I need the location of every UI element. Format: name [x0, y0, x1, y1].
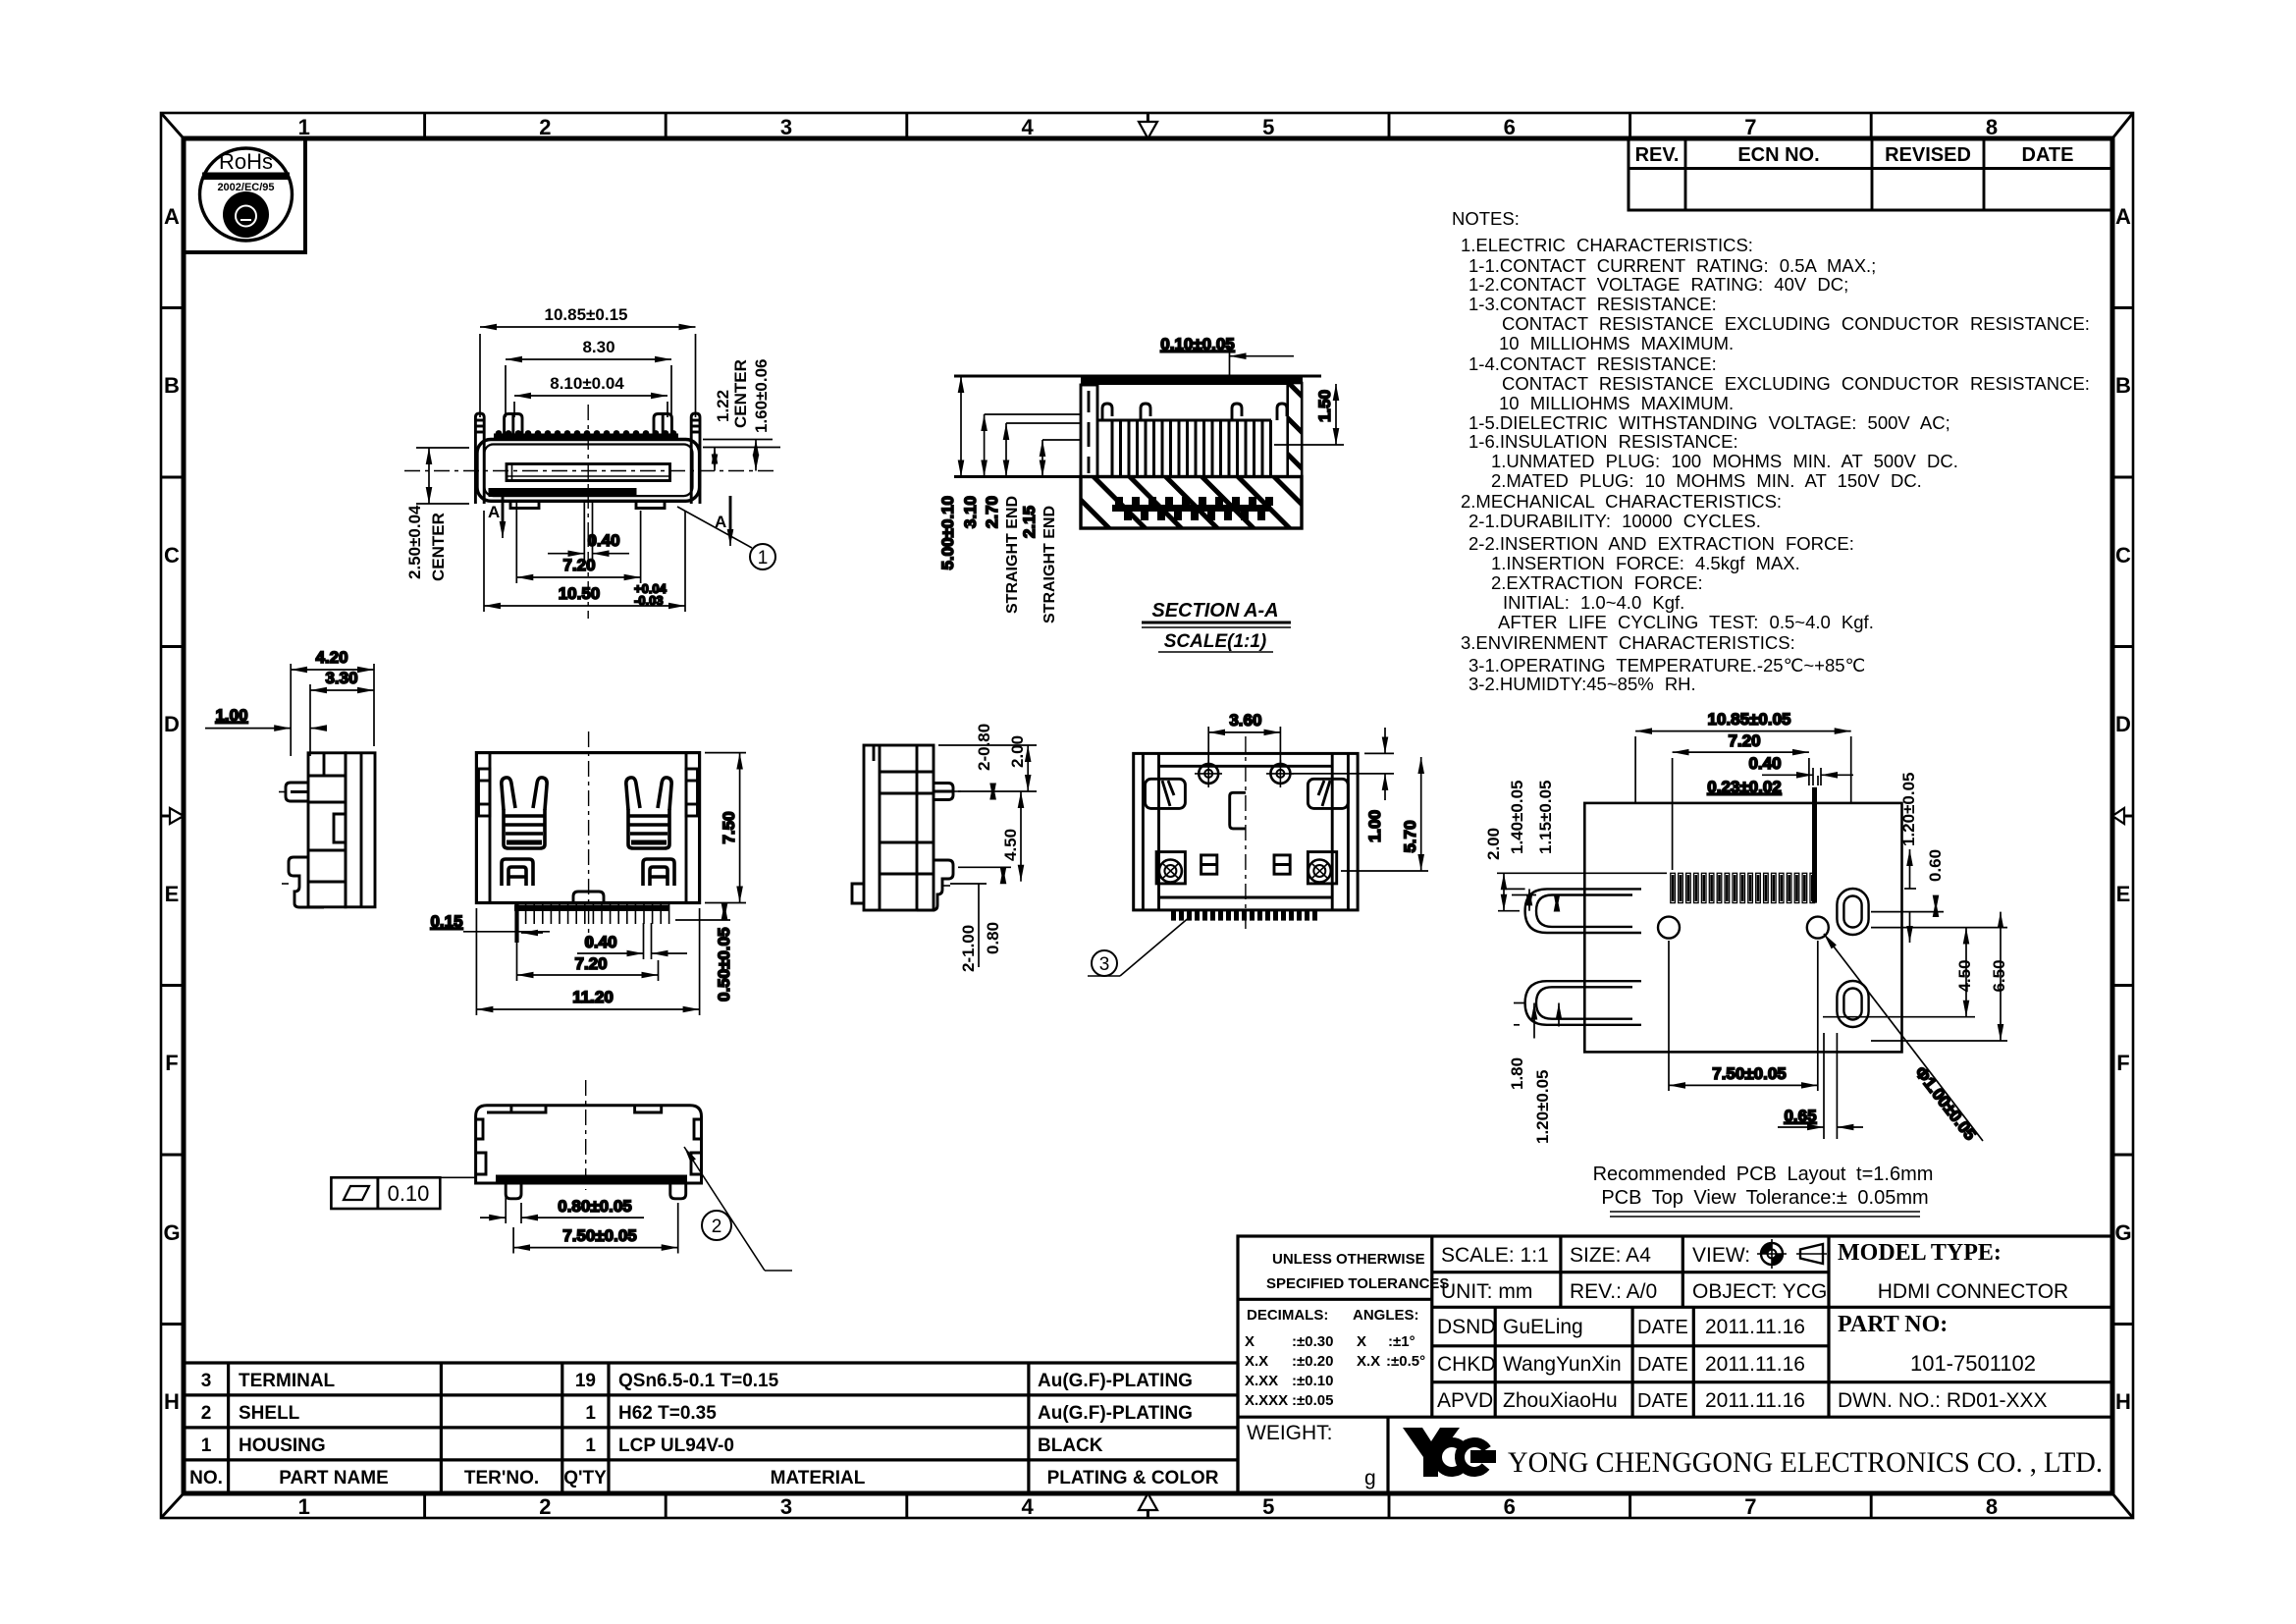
svg-text:REV.: REV.: [1635, 144, 1680, 166]
svg-text:STRAIGHT END: STRAIGHT END: [1041, 506, 1058, 623]
v7 hole left: [1658, 917, 1680, 939]
svg-text:2011.11.16: 2011.11.16: [1705, 1389, 1805, 1412]
svg-text:A: A: [2115, 204, 2131, 229]
v2 dim 2.15: [1020, 440, 1081, 538]
v7 right obround lower: [1837, 981, 1868, 1027]
svg-text:1: 1: [585, 1403, 596, 1424]
v2 dim 3.10: [961, 414, 1081, 528]
v4 dim 7.50: [705, 753, 746, 903]
svg-text:0.80: 0.80: [984, 922, 1002, 954]
v4 inner side walls: [479, 753, 698, 903]
v2 dim 1.50: [1274, 384, 1344, 445]
v4 dim 0.50: [675, 903, 733, 1002]
svg-text:RoHs: RoHs: [219, 149, 273, 174]
svg-text:OBJECT: YCG: OBJECT: YCG: [1692, 1280, 1827, 1303]
v1 centerline vertical: [587, 405, 589, 619]
v1 side pin left: [475, 413, 484, 504]
svg-text:8.30: 8.30: [582, 338, 614, 356]
svg-text:SHELL: SHELL: [239, 1403, 300, 1424]
svg-text:1.INSERTION FORCE: 4.5kg: 1.INSERTION FORCE: 4.5kgf MAX.: [1491, 553, 1800, 573]
svg-text:CHKD: CHKD: [1437, 1353, 1496, 1376]
v6 inner lines: [1143, 753, 1348, 910]
v4 lower cutout left: [502, 859, 533, 886]
RoHS logo box: [184, 138, 305, 252]
svg-text:4.50: 4.50: [1955, 959, 1974, 992]
svg-text:SECTION A-A: SECTION A-A: [1151, 600, 1278, 622]
svg-text:0.60: 0.60: [1926, 849, 1945, 882]
v4 pin row bar: [514, 905, 669, 912]
v8 body outline: [476, 1106, 702, 1183]
svg-text:7.20: 7.20: [562, 556, 595, 574]
v2 shell top bar: [1081, 376, 1303, 385]
title block frame: [1238, 1236, 2112, 1493]
svg-text::±0.10: :±0.10: [1292, 1373, 1333, 1389]
svg-text:G: G: [163, 1220, 180, 1245]
svg-text:3.ENVIRENMENT CHARACTERISTICS: 3.ENVIRENMENT CHARACTERISTICS:: [1461, 632, 1795, 653]
v1 balloon 1: [677, 507, 775, 569]
RoHS logo circle: [200, 148, 293, 241]
centering mark left: [161, 808, 184, 824]
svg-text:2: 2: [712, 1217, 722, 1237]
v6 mid rect left: [1201, 855, 1217, 874]
v1 blade inner line: [511, 464, 513, 481]
svg-text:H62 T=0.35: H62 T=0.35: [618, 1403, 717, 1424]
v2 housing hatched block: [1081, 477, 1302, 529]
svg-text:0.15: 0.15: [430, 912, 462, 931]
svg-text:3.60: 3.60: [1229, 711, 1261, 730]
svg-text:ANGLES:: ANGLES:: [1353, 1307, 1419, 1324]
svg-text:3.30: 3.30: [325, 669, 357, 687]
v2 terminal comb: [1112, 420, 1271, 476]
v5 body profile: [852, 745, 953, 910]
svg-text:Au(G.F)-PLATING: Au(G.F)-PLATING: [1038, 1403, 1193, 1424]
view8 front view 2: [331, 1080, 792, 1271]
svg-text:INITIAL: 1.0~4.0 Kgf.: INITIAL: 1.0~4.0 Kgf.: [1503, 592, 1684, 613]
v4 body rect: [476, 753, 699, 903]
svg-text:B: B: [2115, 373, 2131, 398]
v1 top pin left: [505, 414, 522, 440]
v2 left wall: [1081, 385, 1097, 477]
svg-text:NO.: NO.: [189, 1468, 223, 1489]
svg-text:A: A: [164, 204, 180, 229]
v2 dim 0.10: [1160, 335, 1294, 383]
zone numbers bottom: [298, 1494, 1998, 1519]
svg-text:DATE: DATE: [1637, 1317, 1688, 1338]
v7 dim 7.20: [1673, 731, 1809, 870]
svg-text:2011.11.16: 2011.11.16: [1705, 1316, 1805, 1338]
v1 dim 1.22 center 1.60 right: [703, 440, 780, 471]
svg-text:3-2.HUMIDTY:45~85% RH.: 3-2.HUMIDTY:45~85% RH.: [1468, 674, 1696, 694]
svg-text:10.85±0.15: 10.85±0.15: [545, 305, 628, 324]
svg-text:2.00: 2.00: [1008, 735, 1027, 768]
svg-text:X.XX: X.XX: [1245, 1373, 1278, 1389]
svg-text:0.65: 0.65: [1784, 1107, 1816, 1125]
v3 dim 4.20: [291, 648, 374, 756]
tolerances box text: [1245, 1251, 1449, 1409]
v1 dim 10.50: [484, 511, 685, 612]
svg-text:PART NAME: PART NAME: [279, 1468, 389, 1489]
svg-text:SIZE: A4: SIZE: A4: [1570, 1244, 1651, 1267]
v1 foot left: [510, 501, 539, 508]
svg-text:CONTACT RESISTANCE EXCLUDING: CONTACT RESISTANCE EXCLUDING CONDUCTOR R…: [1502, 373, 2090, 394]
svg-text:3: 3: [780, 115, 792, 139]
svg-text:101-7501102: 101-7501102: [1910, 1351, 2036, 1376]
svg-text:STRAIGHT END: STRAIGHT END: [1004, 496, 1021, 614]
svg-text:1-3.CONTACT RESISTANCE:: 1-3.CONTACT RESISTANCE:: [1468, 294, 1717, 314]
svg-text:3-1.OPERATING TEMPERATURE.-25: 3-1.OPERATING TEMPERATURE.-25℃~+85℃: [1468, 655, 1866, 676]
svg-text:2011.11.16: 2011.11.16: [1705, 1353, 1805, 1376]
svg-text:19: 19: [575, 1371, 596, 1391]
svg-text:PCB Top View Tolerance:± 0.05m: PCB Top View Tolerance:± 0.05mm: [1601, 1187, 1928, 1209]
svg-text:8: 8: [1986, 115, 1998, 139]
svg-text:2.70: 2.70: [983, 496, 1001, 528]
v6 latch block left: [1146, 779, 1186, 808]
zone ticks left: [161, 308, 184, 1325]
svg-text:H: H: [164, 1389, 180, 1414]
svg-text:DECIMALS:: DECIMALS:: [1247, 1307, 1328, 1324]
svg-text:PART NO:: PART NO:: [1838, 1312, 1948, 1337]
svg-text:ECN NO.: ECN NO.: [1737, 144, 1819, 166]
v2 title section a-a: [1142, 600, 1291, 652]
svg-text:SCALE(1:1): SCALE(1:1): [1164, 631, 1267, 652]
svg-text:Q'TY: Q'TY: [563, 1468, 607, 1489]
svg-text:1.15±0.05: 1.15±0.05: [1536, 780, 1555, 854]
approval rows: [1437, 1316, 1805, 1412]
svg-text:3: 3: [780, 1494, 792, 1519]
svg-text:0.10±0.05: 0.10±0.05: [1160, 335, 1235, 353]
v7 dim 7.50 bottom: [1669, 941, 1818, 1091]
svg-text:F: F: [165, 1051, 178, 1075]
svg-text:X.X: X.X: [1357, 1353, 1380, 1370]
svg-text:6.50: 6.50: [1990, 959, 2008, 992]
svg-text:X: X: [1357, 1333, 1366, 1350]
svg-text:A: A: [488, 503, 500, 521]
svg-text:DATE: DATE: [2022, 144, 2074, 166]
v6 center tab: [1230, 792, 1246, 829]
v2 dim 2.70: [983, 423, 1081, 528]
v1 side pin right: [691, 413, 700, 504]
v3 body profile: [286, 753, 375, 907]
v1 dim 10.85: [480, 305, 696, 417]
svg-text:B: B: [164, 373, 180, 398]
svg-text:5: 5: [1262, 1494, 1274, 1519]
svg-text:3.10: 3.10: [961, 496, 980, 528]
v4 dim 0.15: [430, 903, 550, 943]
svg-text:2: 2: [201, 1403, 212, 1424]
svg-text:1.20±0.05: 1.20±0.05: [1899, 772, 1918, 846]
svg-text:7.50±0.05: 7.50±0.05: [562, 1226, 637, 1245]
zone letters right: [2114, 204, 2131, 1414]
v1 dim 8.30: [506, 338, 671, 417]
svg-text:REVISED: REVISED: [1885, 144, 1971, 166]
svg-text:VIEW:: VIEW:: [1692, 1244, 1750, 1267]
svg-text:1-5.DIELECTRIC WITHSTANDING: 1-5.DIELECTRIC WITHSTANDING VOLTAGE: 500…: [1468, 412, 1950, 433]
svg-text:5.70: 5.70: [1401, 820, 1419, 852]
svg-text:X.XXX: X.XXX: [1245, 1392, 1288, 1409]
v7 tall pad 0.23: [1812, 787, 1817, 903]
v7 dim phi 1.00 leader: [1824, 934, 1983, 1144]
weight box: [1247, 1422, 1376, 1489]
v8 dim 7.50: [513, 1203, 678, 1254]
svg-text:Recommended PCB Layout t=1.6mm: Recommended PCB Layout t=1.6mm: [1593, 1164, 1934, 1185]
svg-text:7.50: 7.50: [720, 811, 738, 843]
svg-text:NOTES:: NOTES:: [1452, 208, 1520, 229]
v7 caption: [1593, 1164, 1934, 1217]
svg-text:SPECIFIED TOLERANCES: SPECIFIED TOLERANCES: [1266, 1275, 1449, 1292]
svg-text:Au(G.F)-PLATING: Au(G.F)-PLATING: [1038, 1371, 1193, 1391]
svg-text:0.40: 0.40: [587, 531, 619, 550]
v8 legs: [506, 1183, 686, 1199]
svg-text:4: 4: [1021, 115, 1034, 139]
svg-text:6: 6: [1504, 1494, 1516, 1519]
svg-text:GuELing: GuELing: [1503, 1316, 1583, 1338]
zone ticks top: [425, 113, 1872, 138]
v6 mid rect right: [1274, 855, 1290, 874]
YCG logo: [1403, 1428, 1496, 1478]
svg-text:0.80±0.05: 0.80±0.05: [558, 1197, 632, 1216]
svg-text:TERMINAL: TERMINAL: [239, 1371, 336, 1391]
v2 contact hooks: [1102, 404, 1287, 420]
v1 centerline horizontal: [404, 470, 777, 472]
v5 pin ticks: [942, 791, 961, 886]
svg-text:CENTER: CENTER: [429, 513, 448, 581]
v1 shell inner: [485, 445, 693, 497]
svg-text:1-4.CONTACT RESISTANCE:: 1-4.CONTACT RESISTANCE:: [1468, 353, 1717, 374]
v1 dim 2.50 center left: [416, 448, 469, 504]
v6 dim 3.60: [1208, 711, 1280, 764]
svg-text:1-2.CONTACT VOLTAGE RATING:: 1-2.CONTACT VOLTAGE RATING: 40V DC;: [1468, 274, 1848, 295]
svg-text:10 MILLIOHMS MAXIMUM.: 10 MILLIOHMS MAXIMUM.: [1499, 393, 1734, 413]
scale row: [1441, 1244, 1827, 1303]
svg-text:UNLESS OTHERWISE: UNLESS OTHERWISE: [1272, 1251, 1425, 1268]
v2 dim 5.00: [938, 376, 961, 570]
zone numbers top: [298, 115, 1998, 139]
svg-text:1.40±0.05: 1.40±0.05: [1508, 780, 1526, 854]
svg-text:REV.: A/0: REV.: A/0: [1570, 1280, 1657, 1303]
v7 left dims: [1497, 873, 1667, 910]
v7 left bottom dims: [1514, 1003, 1559, 1039]
svg-text:C: C: [164, 543, 180, 568]
svg-text:0.40: 0.40: [584, 933, 616, 951]
centering mark right: [2112, 808, 2133, 824]
svg-text:1.20±0.05: 1.20±0.05: [1533, 1069, 1552, 1144]
v4 lower cutout right: [643, 859, 674, 886]
svg-text:1-1.CONTACT CURRENT RATING:: 1-1.CONTACT CURRENT RATING: 0.5A MAX.;: [1468, 255, 1876, 276]
view6 bottom view: [1088, 711, 1428, 976]
svg-text::±0.20: :±0.20: [1292, 1353, 1333, 1370]
v8 top tabs: [476, 1106, 702, 1174]
svg-text:10.50: 10.50: [559, 584, 601, 603]
v1 foot right: [636, 501, 665, 508]
v7 pad field: [1671, 873, 1815, 902]
svg-text:2.EXTRACTION FORCE:: 2.EXTRACTION FORCE:: [1491, 572, 1703, 593]
svg-text:1.50: 1.50: [1315, 390, 1334, 422]
svg-text:MODEL TYPE:: MODEL TYPE:: [1838, 1240, 2002, 1266]
svg-text::±0.30: :±0.30: [1292, 1333, 1333, 1350]
svg-text:10 MILLIOHMS MAXIMUM.: 10 MILLIOHMS MAXIMUM.: [1499, 333, 1734, 353]
svg-text:D: D: [2115, 712, 2131, 736]
v1 section marker A left: [488, 489, 503, 538]
svg-text:LCP UL94V-0: LCP UL94V-0: [618, 1435, 734, 1456]
svg-text:DWN. NO.: RD01-XXX: DWN. NO.: RD01-XXX: [1838, 1389, 2048, 1412]
v7 dim 10.85: [1635, 710, 1851, 803]
svg-text:H: H: [2115, 1389, 2131, 1414]
v4 spring contact right: [626, 778, 671, 848]
v1 terminals row: [494, 434, 678, 441]
svg-text:CENTER: CENTER: [731, 359, 750, 428]
svg-text:TER'NO.: TER'NO.: [464, 1468, 539, 1489]
svg-text:2.00: 2.00: [1484, 828, 1503, 860]
svg-text:0.50±0.05: 0.50±0.05: [715, 927, 733, 1001]
view3 side view left: [205, 648, 375, 907]
svg-text:DATE: DATE: [1637, 1390, 1688, 1412]
v7 dim 0.40: [1748, 754, 1853, 785]
v4 dim 11.20: [476, 908, 699, 1015]
v1 black bar: [489, 488, 637, 497]
svg-text:2.MECHANICAL CHARACTERISTICS:: 2.MECHANICAL CHARACTERISTICS:: [1461, 491, 1782, 512]
svg-text:YONG CHENGGONG ELECTRONICS: YONG CHENGGONG ELECTRONICS CO. , LTD.: [1508, 1446, 2103, 1479]
svg-text:1.60±0.06: 1.60±0.06: [752, 358, 771, 433]
v6 bottom block left: [1156, 852, 1185, 884]
svg-text:0.23±0.02: 0.23±0.02: [1707, 778, 1782, 796]
svg-text:1: 1: [758, 548, 769, 568]
v8 centerline: [585, 1080, 587, 1190]
svg-text:E: E: [2116, 882, 2131, 906]
svg-text:WangYunXin: WangYunXin: [1503, 1353, 1622, 1376]
v3 pin ticks: [279, 792, 289, 885]
svg-text:1: 1: [201, 1435, 212, 1456]
notes text: [1452, 208, 2090, 694]
v4 dim 0.40: [577, 923, 687, 959]
svg-text:1-6.INSULATION RESISTANCE:: 1-6.INSULATION RESISTANCE:: [1468, 431, 1738, 452]
v1 top pin right: [654, 414, 671, 440]
svg-text:D: D: [164, 712, 180, 736]
svg-text:8.10±0.04: 8.10±0.04: [550, 374, 624, 393]
svg-text:E: E: [165, 882, 180, 906]
v1 dim 7.20: [516, 503, 640, 583]
centering mark bottom: [1139, 1493, 1157, 1518]
svg-text:X.X: X.X: [1245, 1353, 1268, 1370]
v3 dim 1.00: [205, 706, 325, 729]
svg-text:7: 7: [1744, 115, 1756, 139]
parts list table: [186, 1363, 1238, 1493]
v7 hole right: [1807, 917, 1829, 939]
svg-text:1.80: 1.80: [1508, 1057, 1526, 1090]
v2 top reference line: [954, 375, 1321, 378]
border frame: [161, 113, 2133, 1518]
v6 balloon 3: [1088, 916, 1191, 976]
svg-text:2-1.DURABILITY: 10000 CYCLES: 2-1.DURABILITY: 10000 CYCLES.: [1468, 511, 1761, 531]
svg-text:5: 5: [1262, 115, 1274, 139]
svg-text:6: 6: [1504, 115, 1516, 139]
svg-text:8: 8: [1986, 1494, 1998, 1519]
v4 dim 7.20: [517, 943, 659, 981]
svg-text:10.85±0.05: 10.85±0.05: [1708, 710, 1791, 729]
v6 bottom block right: [1308, 852, 1336, 884]
svg-text:X: X: [1245, 1333, 1255, 1350]
v6 dim 5.70: [1341, 757, 1428, 871]
svg-text:2-0.80: 2-0.80: [975, 724, 993, 771]
zone ticks bottom: [425, 1493, 1872, 1518]
svg-text:1.00: 1.00: [1365, 810, 1384, 842]
svg-text:CONTACT RESISTANCE EXCLUDING: CONTACT RESISTANCE EXCLUDING CONDUCTOR R…: [1502, 313, 2090, 334]
v7 dim 0.23: [1707, 778, 1782, 796]
svg-text:2-2.INSERTION AND EXTRACTION: 2-2.INSERTION AND EXTRACTION FORCE:: [1468, 533, 1854, 554]
revision table: [1629, 138, 2112, 210]
v6 boss circle right: [1266, 760, 1294, 787]
zone ticks right: [2112, 308, 2133, 1325]
svg-text:2.15: 2.15: [1020, 506, 1039, 538]
svg-text:0.10: 0.10: [388, 1181, 430, 1206]
centering mark top: [1139, 113, 1157, 138]
view1 top view: [404, 305, 780, 619]
v6 dim 1.00: [1290, 728, 1394, 842]
v6 centerline: [1245, 736, 1247, 933]
svg-text:G: G: [2114, 1220, 2131, 1245]
v1 blade outer: [507, 464, 670, 481]
v1 shell outer: [477, 440, 700, 502]
svg-text:1: 1: [298, 115, 310, 139]
v4 spring contact left: [502, 778, 547, 848]
svg-text:1.ELECTRIC CHARACTERISTICS:: 1.ELECTRIC CHARACTERISTICS:: [1461, 235, 1753, 255]
v6 pins row: [1171, 910, 1317, 921]
view2 section A-A: [938, 335, 1344, 652]
v7 right dims: [1818, 776, 2007, 1041]
svg-text:C: C: [2115, 543, 2131, 568]
svg-text:APVD: APVD: [1437, 1389, 1493, 1412]
v7 left slot upper: [1525, 889, 1641, 933]
svg-text:2-1.00: 2-1.00: [959, 925, 978, 972]
svg-text:F: F: [2116, 1051, 2129, 1075]
v7 right obround upper: [1837, 889, 1868, 935]
v8 dim 0.80: [480, 1187, 644, 1223]
v5 dim lines right: [938, 745, 1037, 967]
svg-text:HDMI CONNECTOR: HDMI CONNECTOR: [1878, 1280, 2068, 1303]
svg-text::±0.5°: :±0.5°: [1386, 1353, 1425, 1370]
svg-text:1.UNMATED PLUG: 100 MOHMS: 1.UNMATED PLUG: 100 MOHMS MIN. AT 500V D…: [1491, 451, 1958, 471]
v2 right wall hatched: [1288, 383, 1303, 477]
svg-text:1: 1: [585, 1435, 596, 1456]
view7 pcb layout: [1484, 710, 2008, 1217]
v1 section marker A right: [715, 496, 730, 546]
v7 dim 0.65: [1778, 1033, 1863, 1139]
svg-text:QSn6.5-0.1 T=0.15: QSn6.5-0.1 T=0.15: [618, 1371, 779, 1391]
svg-text:4.50: 4.50: [1001, 829, 1020, 861]
svg-text:0.40: 0.40: [1748, 754, 1781, 773]
svg-text:4.20: 4.20: [315, 648, 347, 667]
svg-text:DATE: DATE: [1637, 1354, 1688, 1376]
svg-text:BLACK: BLACK: [1038, 1435, 1103, 1456]
v4 bottom notch: [573, 892, 604, 903]
v1 dim 8.10: [514, 374, 667, 417]
svg-text:7.50±0.05: 7.50±0.05: [1712, 1064, 1787, 1083]
v8 bottom bar: [496, 1175, 687, 1184]
v7 pcb outline: [1584, 803, 1901, 1053]
svg-text:2.50±0.04: 2.50±0.04: [405, 505, 424, 579]
svg-text:1.22: 1.22: [714, 390, 732, 422]
zone letters left: [163, 204, 180, 1414]
svg-text:DSND: DSND: [1437, 1316, 1496, 1338]
v6 body rect: [1134, 753, 1358, 910]
svg-text:4: 4: [1021, 1494, 1034, 1519]
svg-text:5.00±0.10: 5.00±0.10: [938, 496, 957, 570]
svg-text::±1°: :±1°: [1388, 1333, 1415, 1350]
v1 dim 0.40: [548, 503, 629, 560]
svg-text:SCALE: 1:1: SCALE: 1:1: [1441, 1244, 1549, 1267]
svg-text:HOUSING: HOUSING: [239, 1435, 326, 1456]
svg-text:3: 3: [201, 1371, 212, 1391]
svg-text::±0.05: :±0.05: [1292, 1392, 1333, 1409]
